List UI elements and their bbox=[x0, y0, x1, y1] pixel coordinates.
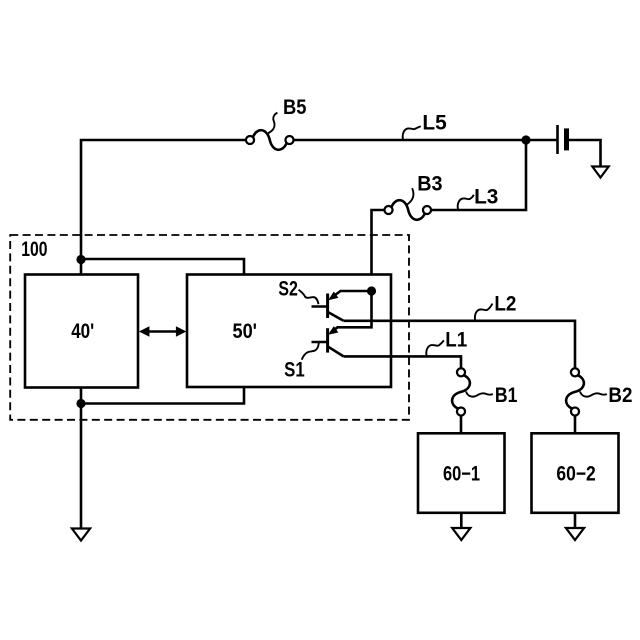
leader L3 bbox=[458, 195, 474, 210]
fuse B5 bbox=[246, 130, 294, 150]
transistor S2 bbox=[312, 291, 372, 321]
wire 60-2 to ground bbox=[574, 513, 577, 528]
leader B1 bbox=[466, 392, 493, 397]
label 100 bbox=[21, 238, 47, 261]
wire top horizontal left (to B5) bbox=[81, 140, 246, 259]
ground (60-1) bbox=[452, 528, 470, 540]
fuse B1 bbox=[452, 368, 470, 415]
wire junction to 50' top bbox=[81, 259, 244, 275]
wire L5 (B5 to battery) bbox=[293, 139, 556, 142]
label B3 bbox=[417, 173, 442, 196]
label 50' bbox=[233, 320, 258, 343]
node transistor emitter junction bbox=[367, 286, 376, 295]
label L3 bbox=[474, 185, 498, 208]
label L1 bbox=[445, 329, 467, 352]
block 50' bbox=[187, 275, 391, 388]
label B2 bbox=[608, 384, 632, 407]
label S2 bbox=[278, 277, 298, 300]
wire B3 down into block bbox=[372, 210, 385, 291]
wire node down to L3 level bbox=[431, 140, 526, 210]
wire L1 (S1 collector to B1) bbox=[344, 356, 462, 368]
leader B3 bbox=[406, 188, 414, 206]
wire junction into 40' top bbox=[80, 259, 83, 275]
transistor S1 bbox=[312, 326, 344, 356]
wire 60-1 to ground bbox=[460, 513, 463, 528]
wire B2 to 60-2 bbox=[574, 415, 577, 433]
node top junction bbox=[521, 135, 530, 144]
svg-text:60−2: 60−2 bbox=[556, 462, 595, 485]
wire 40' bottom to lower junction bbox=[80, 388, 83, 404]
bidirectional arrow between 40' and 50' bbox=[139, 326, 187, 336]
fuse B3 bbox=[384, 200, 431, 220]
wire B1 to 60-1 bbox=[460, 415, 463, 433]
battery bbox=[558, 125, 567, 154]
leader S1 bbox=[302, 343, 319, 360]
svg-text:100: 100 bbox=[21, 238, 47, 261]
fuse B2 bbox=[566, 368, 584, 415]
wire emitter junction down to S1 bbox=[331, 291, 372, 333]
leader B2 bbox=[580, 392, 607, 397]
leader S2 bbox=[299, 290, 319, 304]
wire L2 (S2 collector to B2) bbox=[344, 321, 576, 369]
leader L2 bbox=[475, 304, 493, 321]
svg-text:B2: B2 bbox=[608, 384, 632, 407]
leader L1 bbox=[426, 340, 444, 356]
svg-text:L5: L5 bbox=[422, 111, 447, 134]
label B1 bbox=[495, 384, 518, 407]
label B5 bbox=[283, 96, 307, 119]
svg-text:L3: L3 bbox=[474, 185, 498, 208]
wire lower junction to ground bbox=[80, 404, 83, 529]
svg-text:S1: S1 bbox=[284, 358, 305, 381]
block 40' bbox=[25, 275, 138, 388]
ground (battery) bbox=[592, 167, 608, 178]
svg-text:L2: L2 bbox=[494, 293, 516, 316]
svg-text:50': 50' bbox=[233, 320, 258, 343]
leader L5 bbox=[403, 126, 421, 139]
node upper-left junction bbox=[76, 255, 85, 264]
svg-text:L1: L1 bbox=[445, 329, 467, 352]
svg-text:S2: S2 bbox=[278, 277, 298, 300]
block 60-2 bbox=[532, 433, 619, 513]
node lower-left junction bbox=[76, 399, 85, 408]
block 60-1 bbox=[418, 433, 505, 513]
label S1 bbox=[284, 358, 305, 381]
label 40' bbox=[71, 320, 94, 343]
svg-text:B1: B1 bbox=[495, 384, 518, 407]
wire lower junction to 50' bottom bbox=[81, 387, 244, 404]
label L5 bbox=[422, 111, 447, 134]
wire battery to ground bbox=[569, 140, 601, 167]
label 60-1 bbox=[443, 462, 480, 485]
svg-text:B5: B5 bbox=[283, 96, 307, 119]
dashed block 100 bbox=[10, 235, 409, 420]
label L2 bbox=[494, 293, 516, 316]
ground (60-2) bbox=[566, 528, 584, 540]
svg-text:60−1: 60−1 bbox=[443, 462, 480, 485]
leader B5 bbox=[268, 113, 277, 134]
label 60-2 bbox=[556, 462, 595, 485]
ground (left) bbox=[72, 529, 90, 541]
svg-text:40': 40' bbox=[71, 320, 94, 343]
svg-text:B3: B3 bbox=[417, 173, 442, 196]
